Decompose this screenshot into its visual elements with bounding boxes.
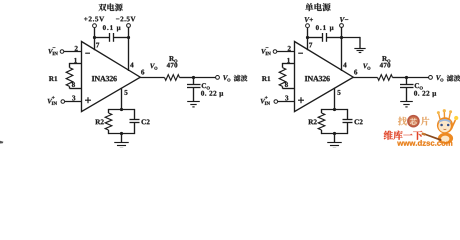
input terminal Vin+ <box>48 99 53 104</box>
wire V+ terminal down to rail <box>307 28 309 38</box>
label R0 <box>382 56 387 61</box>
wire R0 to output node <box>393 77 407 79</box>
wire top rail left segment <box>94 37 110 39</box>
label R2 <box>95 119 100 124</box>
label C0 <box>415 83 419 88</box>
junction feedback top <box>120 108 123 111</box>
pin number 3 <box>285 96 288 101</box>
wire top rail right segment <box>327 37 343 39</box>
pin number 7 <box>309 43 312 48</box>
wire output node to Vo terminal <box>407 77 429 79</box>
ground at feedback network <box>114 142 129 144</box>
label R1 <box>262 76 267 81</box>
wire pin 1 to R1 <box>283 63 295 65</box>
output terminal Vo <box>216 76 220 80</box>
supply terminal V- <box>340 17 345 22</box>
junction node V+ rail <box>306 36 309 39</box>
watermark url www.dzsc.com <box>397 142 403 146</box>
label 0.1 u <box>316 25 319 30</box>
pin number 3 <box>72 96 75 101</box>
wire to C2 <box>134 109 136 120</box>
supply terminal V+ <box>305 17 310 22</box>
resistor R2 <box>321 109 323 113</box>
label 470 <box>380 63 383 68</box>
non-inverting input plus marker <box>298 99 304 101</box>
wire C0 to ground <box>406 88 408 102</box>
junction node V- rail <box>340 36 343 39</box>
non-inverting input plus marker <box>85 99 91 101</box>
pin number 5 <box>337 90 340 95</box>
pin number 1 <box>287 58 290 63</box>
label 0.22 u <box>414 91 417 96</box>
watermark mascot figure <box>421 109 458 144</box>
input terminal Vin+ <box>261 99 266 104</box>
wire to C2 <box>347 109 349 120</box>
wire pin 1 to R1 <box>70 63 82 65</box>
wire pin 6 output to R0 <box>140 77 165 79</box>
label R2 <box>308 119 313 124</box>
wire pin 4 supply <box>128 38 130 72</box>
inverting input minus marker <box>85 52 90 54</box>
supply terminal +2.5V <box>84 17 87 20</box>
wire pin 5 down to feedback network <box>121 88 123 110</box>
watermark badge circle <box>407 115 420 128</box>
wire V- terminal down to rail <box>128 28 130 38</box>
label lvbo (filter) <box>234 75 241 82</box>
label lvbo (filter) <box>447 75 454 82</box>
ground at feedback network <box>327 142 342 144</box>
capacitor C1 0.1u bypass plates <box>322 33 324 42</box>
wire C0 to ground <box>193 88 195 102</box>
resistor R2 <box>108 109 110 113</box>
node label Vo at pin 6 <box>150 64 155 69</box>
label 0.22 u <box>201 91 204 96</box>
capacitor C2 plates <box>130 119 140 121</box>
label 470 <box>167 63 170 68</box>
ground at C0 <box>187 101 200 103</box>
edge artifact bottom-left <box>0 141 3 144</box>
wire feedback bottom rail <box>109 133 135 135</box>
pin number 4 <box>130 63 133 68</box>
pin number 2 <box>288 46 291 51</box>
wire pin 7 supply <box>307 38 309 51</box>
wire output node down to C0 <box>193 78 195 85</box>
capacitor C1 0.1u bypass plates <box>109 33 111 42</box>
watermark logo zhao-xin-pian text <box>398 117 407 126</box>
junction node V+ rail <box>93 36 96 39</box>
pin number 4 <box>343 63 346 68</box>
pin number 2 <box>75 46 78 51</box>
wire V- junction to ground <box>342 37 361 39</box>
capacitor C0 0.22u plates <box>400 84 414 86</box>
junction feedback bottom <box>120 132 123 135</box>
label R1 <box>49 76 54 81</box>
wire R1 to pin 8 <box>69 86 71 88</box>
wire output node down to C0 <box>406 78 408 85</box>
op-amp U INA326 triangle body <box>82 42 141 112</box>
resistor R1 <box>66 68 73 87</box>
wire R0 to output node <box>180 77 194 79</box>
capacitor C0 0.22u plates <box>187 84 201 86</box>
supply terminal -2.5V <box>116 0 119 62</box>
label C2 <box>141 119 145 124</box>
watermark red text wei-ku-yi-xia <box>384 131 393 140</box>
junction feedback bottom <box>333 132 336 135</box>
node label Vo at pin 6 <box>363 64 368 69</box>
pin number 1 <box>74 58 77 63</box>
resistor R0 470 <box>378 75 393 81</box>
wire pin 7 supply <box>94 38 96 51</box>
wire pin 4 supply <box>341 38 343 72</box>
resistor R1 <box>279 68 286 87</box>
op-amp label INA326 <box>305 76 308 81</box>
junction node V- rail <box>127 36 130 39</box>
wire output node to Vo terminal <box>194 77 216 79</box>
op-amp label INA326 <box>92 76 95 81</box>
label C0 <box>202 83 206 88</box>
wire Vin+ to pin 3 <box>278 101 295 103</box>
label C2 <box>354 119 358 124</box>
wire V- terminal down to rail <box>341 28 343 38</box>
wire top rail left segment <box>307 37 323 39</box>
pin number 5 <box>124 90 127 95</box>
pin number 8 <box>285 82 288 87</box>
title label: shuang dian yuan (dual supply) <box>98 4 106 11</box>
output terminal Vo <box>429 76 433 80</box>
wire Vin- to pin 2 <box>277 51 295 53</box>
label R0 <box>169 56 174 61</box>
inverting input minus marker <box>298 52 303 54</box>
input terminal Vin- <box>261 49 266 54</box>
capacitor C2 plates <box>343 119 353 121</box>
op-amp U INA326 triangle body <box>295 42 354 112</box>
wire V+ terminal down to rail <box>94 28 96 38</box>
pin number 6 <box>141 70 144 75</box>
wire R1 to pin 8 <box>282 86 284 88</box>
resistor R0 470 <box>165 75 180 81</box>
wire feedback top rail <box>322 109 348 111</box>
pin number 8 <box>72 82 75 87</box>
junction output node <box>405 76 408 79</box>
wire Vin- to pin 2 <box>64 51 82 53</box>
junction feedback top <box>333 108 336 111</box>
wire bottom junction to ground <box>334 134 336 143</box>
title label: dan dian yuan (single supply) <box>305 3 313 11</box>
pin number 7 <box>96 43 99 48</box>
junction output node <box>192 76 195 79</box>
wire feedback bottom rail <box>322 133 348 135</box>
pin number 6 <box>354 70 357 75</box>
wire bottom junction to ground <box>121 134 123 143</box>
ground at V- rail <box>354 48 365 50</box>
label 0.1 u <box>103 25 106 30</box>
ground at C0 <box>400 101 413 103</box>
wire pin 6 output to R0 <box>353 77 378 79</box>
wire Vin+ to pin 3 <box>65 101 82 103</box>
input terminal Vin- <box>48 49 53 54</box>
wire pin 5 down to feedback network <box>334 88 336 110</box>
wire feedback top rail <box>109 109 135 111</box>
wire top rail right segment <box>114 37 130 39</box>
